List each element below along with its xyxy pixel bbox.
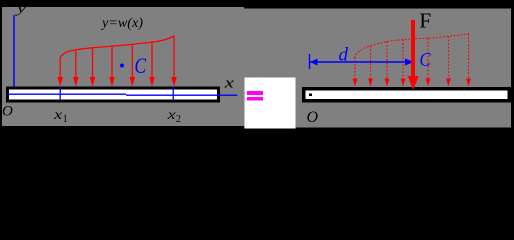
svg-text:F: F	[419, 8, 431, 32]
svg-text:C: C	[420, 49, 432, 71]
svg-text:x: x	[223, 76, 234, 92]
svg-text:O: O	[2, 104, 13, 120]
svg-text:d: d	[339, 44, 349, 65]
svg-text:O: O	[307, 109, 319, 126]
svg-text:C: C	[135, 53, 147, 78]
svg-text:y: y	[14, 2, 27, 17]
svg-text:2: 2	[176, 114, 181, 125]
svg-text:1: 1	[63, 114, 68, 125]
svg-text:y=w(x): y=w(x)	[100, 15, 144, 31]
